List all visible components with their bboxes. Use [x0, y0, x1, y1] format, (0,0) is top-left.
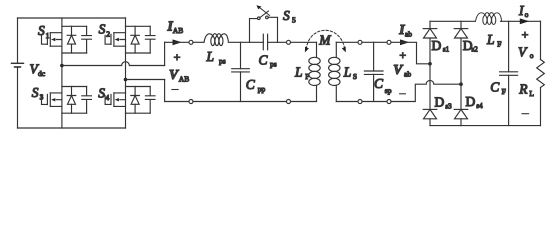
svg-text:S: S [38, 23, 45, 38]
svg-text:1: 1 [46, 31, 50, 40]
resistor RL load [537, 21, 545, 125]
wire secondary bottom into rectifier with hop over left leg [391, 80, 461, 101]
label S3 [32, 85, 44, 101]
svg-text:S: S [99, 22, 106, 37]
svg-text:o: o [525, 10, 529, 19]
inductor LF [476, 13, 502, 25]
wire rectifier bottom rail to load [430, 125, 541, 127]
junction dot rectifier left leg input [428, 62, 432, 66]
label Vab [393, 62, 411, 79]
svg-text:5: 5 [292, 15, 296, 24]
svg-text:+: + [399, 48, 406, 62]
label minus of Vab [400, 93, 406, 95]
svg-text:S: S [32, 85, 39, 100]
label LF [486, 32, 501, 48]
svg-text:F: F [502, 87, 506, 96]
svg-text:dc: dc [38, 69, 46, 78]
svg-text:L: L [343, 64, 352, 79]
svg-text:pp: pp [258, 85, 266, 94]
svg-text:L: L [529, 89, 534, 98]
node A junction dot on leg1 [60, 64, 64, 68]
wire node A horizontal with hop over leg2 [62, 62, 165, 66]
svg-text:ps: ps [219, 57, 226, 66]
inductor Ls secondary coil [329, 42, 340, 101]
label minus of VAB [172, 89, 178, 91]
label S2 [99, 22, 111, 39]
svg-text:D: D [435, 95, 445, 110]
svg-text:R: R [518, 82, 528, 97]
svg-text:P: P [305, 72, 309, 81]
wire bottom output run to tank [193, 101, 287, 103]
wire Ls bottom to terminal [336, 101, 358, 103]
label Iab [398, 22, 412, 39]
label Cpp [246, 77, 266, 94]
wire bottom rail from battery to S4 source [18, 127, 126, 129]
terminal circle secondary bottom right [387, 100, 391, 104]
wire terminal to Lps [193, 41, 204, 43]
svg-text:AB: AB [173, 26, 183, 35]
terminal circle bottom left [189, 100, 193, 104]
svg-text:C: C [259, 52, 269, 67]
label Ls [343, 64, 357, 80]
switch S5 bypass branch left riser [250, 19, 258, 43]
svg-text:V: V [393, 62, 403, 77]
wire bottom output to terminal [165, 101, 189, 103]
svg-text:S: S [283, 8, 290, 23]
arrow actuator of S5 [256, 5, 269, 15]
svg-text:ab: ab [405, 30, 412, 39]
arrow Io on output wire [520, 18, 529, 24]
inductor Lps [204, 34, 228, 46]
battery Vdc [12, 18, 24, 128]
svg-text:L: L [294, 64, 303, 79]
switch S5 contacts and blade [258, 11, 269, 20]
wire rectifier top rail [430, 20, 475, 22]
svg-text:o: o [530, 51, 534, 60]
svg-text:3: 3 [40, 92, 44, 101]
wire secondary bottom run [362, 101, 387, 103]
label Io [518, 3, 529, 19]
diode Ds4 [454, 109, 468, 125]
terminal circle secondary bottom left [358, 100, 362, 104]
svg-text:V: V [169, 67, 179, 82]
terminal circle secondary top right [387, 40, 391, 44]
svg-text:D: D [466, 94, 476, 109]
label S1 [38, 23, 50, 40]
svg-text:C: C [490, 80, 500, 95]
label CF [490, 80, 505, 96]
svg-text:D: D [432, 38, 442, 53]
svg-text:+: + [522, 28, 529, 42]
label Vdc [30, 62, 46, 79]
transistor S3 (MOSFET with body diode and snubber capacitor) [42, 87, 92, 114]
svg-text:C: C [374, 76, 384, 91]
arrow IAB on top wire [173, 39, 182, 45]
label Vo [518, 44, 534, 60]
terminal circle secondary top left [358, 40, 362, 44]
switch S5 right riser [268, 17, 277, 42]
wire top rail from battery to S2 drain [18, 17, 126, 19]
svg-text:C: C [246, 77, 256, 92]
inductor Lp primary coil [309, 42, 320, 101]
mutual coupling M dashed arc with arrows [305, 30, 346, 52]
junction dot rectifier right leg input [459, 82, 463, 86]
svg-text:S: S [353, 72, 357, 81]
label S4 [98, 86, 109, 102]
wire leg1 midsection S1 to S3 [61, 53, 63, 87]
terminal circle top left [189, 40, 193, 44]
svg-text:L: L [486, 32, 495, 47]
terminal circle bottom before tank [287, 100, 291, 104]
diode Ds3 [423, 109, 437, 125]
svg-text:AB: AB [179, 75, 189, 84]
wire LF to output corner [501, 20, 541, 22]
svg-text:M: M [318, 32, 331, 47]
diode Ds2 [454, 21, 468, 109]
wire rail stubs into switch modules [62, 18, 126, 128]
wire secondary top into rectifier [391, 42, 430, 64]
transistor S4 (MOSFET with body diode and snubber capacitor) [105, 87, 155, 114]
capacitor CF shunt [500, 21, 518, 125]
wire Lps to Cps with Cpp tap [230, 41, 264, 43]
svg-text:V: V [518, 44, 528, 59]
label Ds4 [466, 94, 484, 110]
svg-text:ab: ab [404, 70, 411, 79]
wire Ls top to terminal [336, 41, 358, 43]
label Ds3 [435, 95, 453, 111]
label Lp [294, 64, 309, 80]
svg-text:+: + [174, 50, 181, 64]
svg-text:s3: s3 [445, 103, 452, 111]
terminal circle before tank [287, 40, 291, 44]
label Ds1 [432, 38, 450, 54]
label Ds2 [463, 38, 478, 54]
wire top output to terminal [165, 41, 189, 43]
wire secondary top run [362, 41, 387, 43]
transistor S2 (MOSFET with body diode and snubber capacitor) [105, 26, 155, 53]
arrow Iab on secondary top wire [400, 39, 409, 45]
label RL [518, 82, 534, 99]
wire leg2 midsection S2 to S4 [125, 53, 127, 87]
svg-text:sp: sp [385, 86, 392, 95]
svg-text:s4: s4 [476, 102, 483, 110]
label S5 [283, 8, 296, 25]
label IAB [167, 18, 184, 35]
wire bottom terminal to Lp [291, 101, 317, 103]
svg-text:ps: ps [270, 59, 277, 68]
label minus of Vo [522, 113, 529, 115]
svg-text:F: F [497, 40, 501, 49]
diode Ds1 [423, 21, 437, 109]
capacitor Cpp shunt branch [232, 42, 250, 101]
transistor S1 (MOSFET with body diode and snubber capacitor) [42, 26, 92, 53]
wire Cps to terminal [268, 41, 287, 43]
label Cps [259, 52, 277, 68]
node B junction dot on leg2 [124, 78, 128, 82]
capacitor Cps series plates [263, 34, 267, 50]
svg-text:s1: s1 [443, 46, 450, 54]
svg-text:4: 4 [106, 93, 110, 102]
capacitor Csp shunt branch [364, 42, 383, 101]
wire riser node A to top output [164, 42, 166, 65]
svg-text:s2: s2 [472, 46, 479, 54]
label Csp [374, 76, 392, 95]
label VAB [169, 67, 189, 84]
label Lps [206, 49, 226, 66]
wire node B horizontal [126, 79, 165, 81]
wire riser node B to bottom output [164, 80, 166, 102]
svg-text:2: 2 [106, 29, 110, 38]
svg-text:S: S [98, 86, 105, 101]
wire top terminal to Lp [291, 41, 317, 43]
svg-text:L: L [206, 49, 215, 64]
